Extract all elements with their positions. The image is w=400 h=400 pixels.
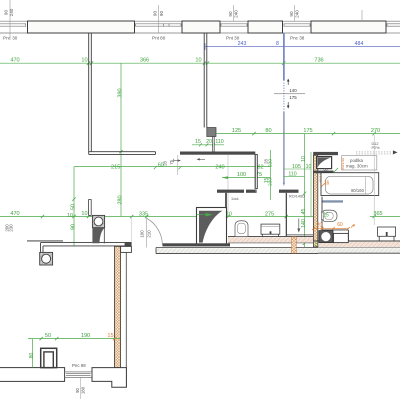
svg-text:470: 470	[10, 58, 19, 64]
svg-text:10: 10	[314, 241, 319, 246]
svg-text:Pnc 38: Pnc 38	[290, 36, 305, 41]
gray hatch band left	[156, 248, 318, 253]
green bath small dims	[284, 168, 312, 170]
wall mid divider	[204, 33, 207, 128]
sink S2	[378, 227, 396, 236]
svg-text:Pnc 30: Pnc 30	[3, 36, 18, 41]
svg-text:366: 366	[140, 58, 149, 64]
orange dim right room	[314, 227, 349, 229]
door D1 arc	[147, 218, 163, 245]
platform podlaha	[342, 156, 377, 170]
wall bar 2	[246, 190, 257, 193]
svg-text:90: 90	[71, 224, 77, 230]
svg-text:Pnc 98: Pnc 98	[72, 363, 86, 368]
window W1 top-left	[0, 21, 28, 33]
svg-text:230: 230	[8, 224, 13, 232]
svg-text:110: 110	[215, 139, 223, 145]
svg-text:90: 90	[159, 11, 164, 17]
steel bar	[322, 200, 344, 202]
chimney	[41, 348, 57, 367]
ext line x228	[227, 155, 229, 215]
svg-text:Pnt 80: Pnt 80	[152, 36, 166, 41]
svg-text:15: 15	[323, 213, 329, 219]
sink S1	[261, 224, 280, 234]
svg-text:82: 82	[257, 164, 263, 170]
wall pier B	[182, 21, 220, 33]
svg-text:10: 10	[195, 58, 201, 64]
green V dim x74	[73, 167, 75, 246]
svg-text:10: 10	[306, 164, 312, 170]
gray ext x255.5	[255, 155, 257, 192]
door D1 jamb wall	[125, 242, 132, 246]
wall below C1	[213, 137, 215, 152]
column C3	[92, 215, 104, 227]
svg-text:175: 175	[289, 95, 297, 100]
svg-text:484: 484	[355, 41, 364, 47]
wire tick x10	[9, 0, 11, 37]
lintel marker 140/175	[274, 93, 305, 95]
wall bar 3	[279, 190, 299, 193]
svg-text:180: 180	[80, 386, 85, 394]
wire tick x233.5	[233, 5, 235, 21]
window W4	[283, 21, 311, 33]
svg-text:240: 240	[234, 10, 239, 18]
window W2	[135, 21, 183, 33]
column C1	[207, 128, 216, 137]
svg-text:105: 105	[292, 164, 301, 170]
green slash at wall	[334, 168, 338, 172]
wall partition x286	[286, 193, 287, 236]
gray ext x146.6 covered, x131	[131, 217, 133, 243]
svg-text:15: 15	[107, 333, 113, 339]
svg-text:390: 390	[117, 88, 123, 97]
green main H dim y63	[0, 62, 400, 64]
window W3	[220, 21, 248, 33]
wall left divider L	[89, 33, 156, 154]
green dim over shaft	[197, 214, 207, 216]
bench line	[287, 234, 313, 236]
fixtures baseline right	[313, 240, 400, 242]
tabletop	[27, 240, 63, 242]
toilet T2	[323, 210, 337, 221]
wall bar 1	[217, 190, 244, 193]
svg-text:P0%: P0%	[372, 146, 381, 150]
svg-text:50: 50	[71, 204, 77, 210]
svg-text:190: 190	[81, 333, 90, 339]
svg-text:243: 243	[238, 41, 247, 47]
wall bath vertical x255	[255, 155, 257, 189]
svg-text:125: 125	[232, 128, 241, 134]
svg-text:Pnt 30: Pnt 30	[226, 36, 240, 41]
svg-text:90: 90	[289, 11, 294, 17]
wire tick x158.5	[158, 5, 160, 33]
appliance	[334, 233, 349, 242]
green V dim x121	[120, 63, 122, 216]
wall pier A	[28, 21, 135, 33]
svg-text:15: 15	[264, 178, 270, 184]
wall pier D	[311, 21, 386, 33]
svg-text:1/od.: 1/od.	[231, 197, 239, 201]
green H dim y338.5	[28, 338, 120, 340]
svg-text:45: 45	[301, 209, 307, 215]
arrow left small	[198, 158, 206, 160]
window Wb	[65, 372, 92, 378]
wall pier C	[248, 21, 283, 33]
long band line	[156, 247, 318, 249]
wall below shower	[313, 171, 333, 174]
bath2 hatched wall	[313, 155, 317, 247]
fixtures baseline left	[228, 236, 318, 238]
gray hatch band right	[318, 248, 400, 253]
svg-text:mag. 30cm: mag. 30cm	[346, 163, 368, 168]
shaft wedge	[199, 211, 223, 243]
blue riser line	[283, 33, 285, 80]
shaft box	[197, 208, 227, 245]
svg-text:736: 736	[314, 58, 323, 64]
wall H1	[180, 152, 255, 155]
bath2 top wall dark	[313, 152, 338, 155]
wall line x322	[321, 197, 323, 230]
shaft riser wall	[225, 193, 227, 208]
room top wall	[41, 243, 132, 253]
shower	[317, 157, 332, 169]
svg-text:80: 80	[265, 128, 271, 134]
svg-text:10: 10	[301, 156, 307, 162]
hatched wall HW1	[114, 246, 120, 367]
svg-text:275: 275	[265, 212, 274, 218]
svg-text:100: 100	[140, 230, 145, 238]
svg-text:90: 90	[228, 11, 233, 17]
svg-text:28: 28	[264, 159, 269, 164]
window W5	[386, 21, 400, 33]
wall stub x88.6	[89, 200, 92, 216]
blue dim line	[205, 46, 400, 48]
outer line x126.3	[125, 252, 127, 387]
svg-text:90: 90	[4, 10, 9, 16]
notch	[121, 246, 132, 252]
wedge under C3	[92, 228, 104, 244]
green H dim y216.5	[0, 216, 318, 218]
svg-text:210: 210	[146, 230, 151, 238]
svg-text:90/140: 90/140	[340, 157, 345, 170]
pink strip left	[228, 237, 318, 242]
column C2	[40, 252, 53, 265]
orange wall stub	[292, 237, 297, 253]
toilet T1	[235, 221, 248, 237]
wire tick x294.5	[294, 5, 296, 21]
svg-text:10: 10	[67, 213, 73, 219]
svg-text:110: 110	[288, 172, 296, 178]
gray ext line x374	[373, 135, 375, 225]
bottom wall left band	[0, 368, 65, 382]
svg-text:240: 240	[215, 164, 224, 170]
green H dim y166.6	[74, 166, 271, 168]
svg-text:75: 75	[169, 159, 174, 164]
green V x270.5	[270, 150, 272, 200]
green V x32.5	[32, 339, 34, 368]
wall line y229.9	[322, 229, 348, 231]
svg-text:RO/140D: RO/140D	[289, 194, 305, 198]
svg-text:8: 8	[276, 41, 279, 47]
bottom wall right block	[92, 368, 126, 388]
green H y180	[222, 177, 271, 179]
green V x304.5	[304, 134, 306, 247]
svg-text:270: 270	[371, 128, 380, 134]
svg-text:60: 60	[337, 222, 343, 228]
svg-text:90: 90	[153, 11, 158, 17]
svg-text:240: 240	[295, 10, 300, 18]
svg-text:240: 240	[9, 8, 14, 16]
svg-text:28: 28	[162, 161, 167, 166]
svg-text:140: 140	[289, 88, 297, 93]
svg-text:215: 215	[111, 164, 120, 170]
green V x311	[310, 152, 312, 217]
svg-text:175: 175	[303, 128, 312, 134]
svg-text:10: 10	[81, 58, 87, 64]
bathtub	[321, 173, 379, 196]
svg-text:15: 15	[195, 139, 201, 145]
svg-text:100: 100	[237, 172, 246, 178]
svg-text:10: 10	[81, 211, 87, 217]
green H dim y133.5	[217, 133, 400, 135]
svg-text:140: 140	[301, 219, 307, 228]
svg-text:50: 50	[45, 333, 51, 339]
svg-text:80: 80	[29, 353, 35, 359]
wall H2 dark	[163, 243, 231, 246]
door arrow bath1	[298, 219, 300, 231]
svg-text:280: 280	[117, 195, 123, 204]
svg-text:470: 470	[10, 211, 19, 217]
pink strip right	[318, 240, 400, 242]
door ext line	[177, 155, 179, 175]
svg-text:20: 20	[317, 222, 323, 228]
wire tick x362	[361, 10, 363, 21]
washing machine	[319, 231, 333, 243]
svg-text:80/160: 80/160	[351, 188, 364, 193]
